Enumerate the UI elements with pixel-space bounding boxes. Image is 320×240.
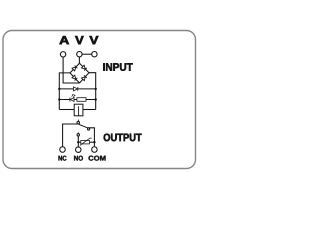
armature	[79, 124, 88, 128]
label NC	[59, 156, 67, 161]
relay coil K1	[74, 104, 83, 116]
diode D2 bridge top-right	[81, 65, 86, 70]
terminal COM	[92, 147, 98, 153]
border frame	[3, 31, 196, 169]
junction row1 right	[95, 88, 97, 90]
label A	[60, 36, 69, 44]
wire coil row left	[59, 109, 74, 111]
junction row2 left	[58, 98, 60, 100]
terminal V1	[77, 52, 82, 57]
junction row1 left	[58, 88, 60, 90]
wire varistor left	[78, 141, 81, 143]
junction row2 right	[95, 98, 97, 100]
coil plunger line	[78, 106, 80, 116]
diode D4 bridge bottom-right	[81, 75, 86, 80]
LED D6	[70, 94, 75, 101]
wire row1 flyback diode rail	[59, 88, 95, 90]
mechanical link dash 2	[77, 132, 79, 133]
wire row2 LED-resistor rail	[59, 99, 95, 101]
wire COM	[87, 128, 94, 147]
wire V1 down to bridge top	[78, 57, 80, 63]
resistor R1	[77, 98, 86, 102]
label V	[90, 36, 99, 44]
label V	[75, 36, 83, 44]
terminal NO	[76, 147, 82, 153]
wire varistor right	[90, 141, 95, 143]
junction varistor NO	[77, 141, 79, 143]
diode D3 bridge bottom-left	[72, 75, 77, 80]
mechanical link dash	[77, 120, 79, 122]
label COM	[89, 156, 106, 161]
terminal NC	[60, 147, 66, 153]
wire bridge right corner to right rail	[89, 73, 96, 110]
NO contact	[77, 134, 79, 136]
wire NC contact to NC terminal	[63, 124, 78, 147]
bridge rectifier diamond	[70, 63, 89, 83]
wire V1-V2 jumper	[82, 53, 92, 55]
diode D1 bridge top-left	[72, 66, 77, 71]
armature contact	[88, 128, 90, 130]
label INPUT	[103, 63, 132, 71]
NC contact	[77, 121, 80, 124]
wire bridge left corner to left rail	[59, 73, 70, 110]
terminal A	[60, 52, 65, 57]
varistor RV1	[81, 141, 90, 144]
label OUTPUT	[104, 134, 142, 142]
wire NO contact to NO terminal	[77, 136, 79, 147]
diode D5 flyback	[74, 87, 78, 91]
wire coil row right	[83, 109, 96, 111]
terminal V2	[92, 52, 97, 57]
label NO	[74, 156, 83, 161]
junction varistor COM	[93, 141, 95, 143]
wire A down	[63, 57, 79, 83]
